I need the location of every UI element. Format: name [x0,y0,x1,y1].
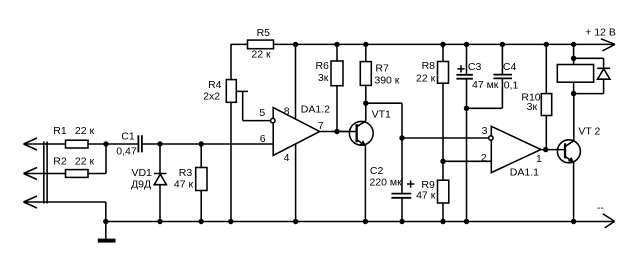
svg-text:C2: C2 [370,165,384,177]
svg-text:3к: 3к [527,101,538,113]
svg-text:VT 2: VT 2 [578,126,600,138]
svg-text:5: 5 [259,107,265,119]
svg-text:22 к: 22 к [251,49,271,61]
svg-text:7: 7 [318,120,324,132]
svg-text:R1: R1 [53,125,67,137]
svg-text:47 к: 47 к [174,178,194,190]
svg-text:8: 8 [284,106,290,118]
svg-text:--: -- [597,202,604,214]
svg-text:VD1: VD1 [131,167,152,179]
svg-text:6: 6 [260,133,266,145]
svg-text:0,47: 0,47 [116,145,137,157]
svg-text:R5: R5 [257,27,271,39]
svg-text:3: 3 [482,125,488,137]
svg-text:0,1: 0,1 [504,79,519,91]
svg-text:R7: R7 [375,62,389,74]
svg-text:47 мк: 47 мк [472,79,499,91]
svg-text:1: 1 [536,153,542,165]
svg-text:VT1: VT1 [372,109,391,121]
svg-text:47 к: 47 к [416,189,436,201]
svg-text:220 мк: 220 мк [369,177,402,189]
svg-text:C4: C4 [503,61,517,73]
svg-text:R3: R3 [179,167,193,179]
svg-text:C3: C3 [468,61,482,73]
svg-text:22 к: 22 к [75,125,95,137]
svg-text:Д9Д: Д9Д [131,178,151,190]
svg-text:3к: 3к [318,72,329,84]
svg-text:2х2: 2х2 [203,91,220,103]
svg-text:R8: R8 [422,60,436,72]
svg-text:+ 12 В: + 12 В [585,26,616,38]
svg-text:DA1.2: DA1.2 [301,104,330,116]
svg-text:R2: R2 [53,155,67,167]
svg-text:R6: R6 [315,60,329,72]
svg-text:DA1.1: DA1.1 [510,166,539,178]
svg-text:4: 4 [284,152,290,164]
svg-text:22 к: 22 к [75,155,95,167]
svg-text:390 к: 390 к [374,74,399,86]
svg-text:C1: C1 [121,131,135,143]
svg-text:22 к: 22 к [416,73,436,85]
svg-text:R4: R4 [208,79,222,91]
svg-text:2: 2 [481,152,487,164]
